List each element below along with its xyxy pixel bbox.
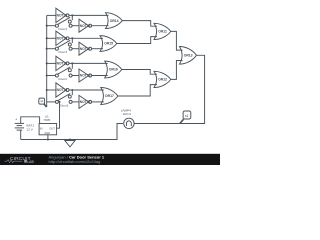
switch Door4 [47,17,79,31]
wire NOT14 output [69,89,104,91]
bus V1 (5V rail from regulator) [46,15,48,107]
or-gate OR16 [105,61,122,78]
junction bus row2 [46,37,48,39]
battery BAT1 [15,116,35,131]
or-gate OR17 [101,88,118,105]
svg-text:100 Ω: 100 Ω [123,112,132,116]
svg-text:NOT17: NOT17 [80,47,91,51]
ground [65,140,75,147]
inverter NOT20 [56,8,69,22]
wire NOT13 output [92,101,104,103]
wire lamp to ground rail [21,124,123,140]
wire OR17 output to OR12 [118,85,157,96]
junction row1 [71,14,73,16]
inverter NOT13 [79,95,92,108]
wire OR11 output to OR13 [171,31,183,50]
wire OR15 output to OR11 [117,37,157,44]
svg-text:GND: GND [44,131,50,135]
junction row2 [71,37,73,39]
wire OR14 output to OR11 [122,21,157,27]
inverter NOT17 [79,42,92,55]
inverter NOT16 [56,56,69,70]
switch Door1 [47,94,79,108]
svg-text:Door2: Door2 [59,77,68,81]
svg-text:NOT16: NOT16 [57,62,68,66]
wire NOT15 output [92,75,108,77]
svg-text:NOT15: NOT15 [80,74,91,78]
or-gate OR14 [106,13,123,29]
svg-text:s1: s1 [185,114,189,118]
svg-text:OR14: OR14 [110,19,119,23]
svg-text:http://circuitlab.com/c/2c24ag: http://circuitlab.com/c/2c24ag [49,159,101,164]
wire NOT17 output [92,48,104,50]
svg-text:LAB: LAB [27,160,34,164]
svg-text:Door4: Door4 [59,27,68,31]
svg-text:OUT: OUT [49,126,55,130]
wire NOT19 output [92,25,109,27]
junction bus row3 switch [46,74,48,76]
svg-text:NOT20: NOT20 [57,14,68,18]
wire elbow to switch throw row3 [71,63,73,68]
footer bar [0,154,220,165]
wire OR16 output to OR12 [122,70,157,75]
svg-text:OR15: OR15 [104,42,113,46]
svg-text:OR11: OR11 [158,30,167,34]
junction bus row2 switch [46,48,48,50]
inverter NOT14 [56,83,69,97]
svg-text:Door1: Door1 [60,103,69,107]
wire NOT16 output [69,62,108,64]
svg-text:Door3: Door3 [59,50,68,54]
or-gate OR13 [180,47,197,65]
switch flag s1 [180,111,191,123]
svg-text:NOT18: NOT18 [57,37,68,41]
wire row3 NOT input [47,62,56,64]
svg-text:IN: IN [40,126,43,130]
junction row3 [71,62,73,64]
wire battery negative to ground rail [20,130,22,139]
regulator U1 7805 [39,114,57,135]
junction row4 [71,89,73,91]
svg-text:OR17: OR17 [105,94,114,98]
or-gate OR12 [154,71,171,87]
wire row1 NOT input [47,14,56,16]
junction GND rail [47,138,49,140]
svg-text:12 V: 12 V [27,128,34,132]
wire row2 NOT input [47,37,56,39]
wire row4 NOT input [47,89,56,91]
wire elbow to switch throw row1 [71,15,73,20]
lamp LAMP4 [121,108,134,128]
inverter NOT18 [56,31,69,45]
or-gate OR11 [154,23,171,39]
svg-text:OR13: OR13 [184,54,193,58]
wire NOT20 output [69,14,109,16]
junction regulator output row4 [58,101,60,103]
wire regulator output to bus [57,102,60,128]
switch Door2 [47,67,79,81]
svg-text:NOT13: NOT13 [80,100,91,104]
svg-text:7805: 7805 [43,118,50,122]
wire elbow to switch throw row2 [71,38,73,43]
wire regulator GND to rail [47,135,49,140]
svg-text:+: + [15,116,18,121]
inverter NOT15 [79,69,92,82]
wire OR13 output to lamp branch [134,55,204,123]
wire NOT18 output [69,37,103,39]
wire elbow to switch throw row4 [71,90,73,95]
or-gate OR15 [100,36,117,52]
svg-text:NOT14: NOT14 [57,88,68,92]
inverter NOT19 [79,19,92,32]
junction bus row4 [46,89,48,91]
wire battery positive to regulator input [21,117,40,124]
switch flag Door1 toggle [39,98,47,107]
wire OR12 output to OR13 [171,61,183,80]
junction bus row3 [46,62,48,64]
svg-text:OR12: OR12 [158,78,167,82]
junction ground rail [69,138,71,140]
svg-text:OR16: OR16 [109,68,118,72]
switch Door3 [47,40,79,54]
junction bus row1 switch [46,25,48,27]
svg-text:NOT19: NOT19 [80,24,91,28]
